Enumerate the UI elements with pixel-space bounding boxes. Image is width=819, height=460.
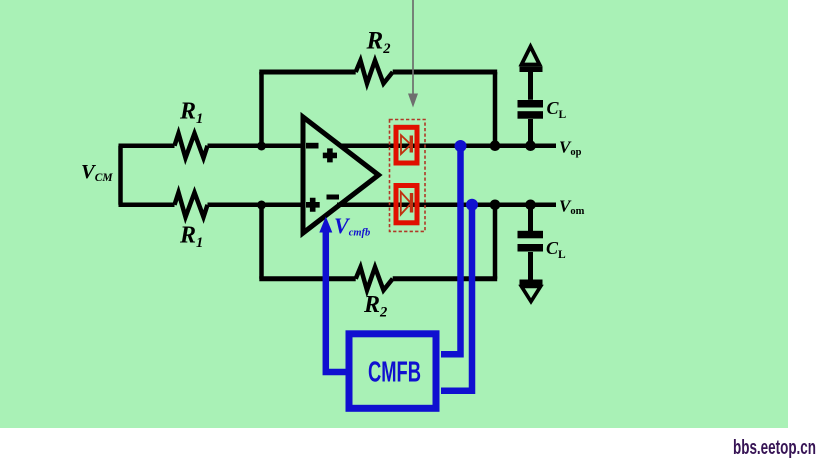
- label CL (bottom): [546, 238, 566, 261]
- node: blue dot on vop: [455, 140, 467, 152]
- node: blue dot on vom: [466, 199, 478, 211]
- label R2 (top): [366, 28, 391, 58]
- capacitor CL (top) plates: [518, 100, 544, 119]
- wire: top output line: [341, 143, 556, 148]
- CMFB output wire and Vcmfb arrow: [319, 217, 346, 373]
- wire: left input vertical: [118, 146, 123, 205]
- wire: bottom input line left segment: [119, 203, 175, 208]
- wire: bottom feedback left vertical: [259, 205, 264, 279]
- label R2 (bottom): [363, 292, 387, 321]
- node: junction dot vom / CL: [525, 200, 536, 211]
- wire: top feedback left vertical: [259, 72, 264, 146]
- label vop: [559, 138, 582, 159]
- wire: top input line left segment: [119, 143, 175, 148]
- annotation arrow (gray, pointing at buffers): [408, 0, 418, 108]
- resistor R2 (bottom): [356, 267, 393, 290]
- resistor R1 (top): [175, 133, 208, 158]
- node: junction dot vom / feedback: [490, 200, 501, 211]
- label CMFB: [368, 357, 421, 389]
- CMFB wire A (from vop node): [441, 146, 461, 354]
- svg-text:bbs.eetop.cn: bbs.eetop.cn: [733, 437, 816, 459]
- label R1 (bottom): [179, 223, 203, 252]
- wire: bottom feedback horizontal left of R2: [259, 276, 355, 281]
- resistor R1 (bottom): [175, 193, 208, 218]
- supply arrow up (top): [520, 47, 543, 73]
- capacitor CL (top) wire stubs: [528, 71, 533, 146]
- node: junction dot bottom input / feedback: [257, 201, 266, 210]
- op-amp minus sign (top input): [306, 143, 319, 149]
- dashed highlight box around buffers: [390, 120, 426, 232]
- capacitor CL (bottom) wire stubs: [528, 205, 533, 280]
- buffer A2 red box (bottom output): [396, 186, 417, 223]
- wire: top input line right segment: [208, 143, 304, 148]
- buffer A1 red box (top output): [396, 127, 417, 163]
- watermark bbs.eetop.cn: [733, 437, 816, 459]
- node: junction dot vop / CL: [525, 140, 536, 151]
- node: junction dot vop / feedback: [490, 140, 501, 151]
- label CL (top): [547, 98, 567, 121]
- wire: top feedback horizontal left of R2: [259, 70, 355, 75]
- op-amp minus sign (bottom, inner): [327, 195, 340, 200]
- node: junction dot top input / feedback: [257, 142, 266, 151]
- supply arrow down (bottom): [520, 280, 543, 302]
- capacitor CL (bottom) plates: [518, 231, 544, 252]
- wire: top feedback right vertical: [493, 72, 498, 146]
- op-amp U1 triangle: [303, 117, 379, 233]
- wire: bottom feedback horizontal right of R2: [393, 276, 498, 281]
- label Vcmfb: [334, 213, 370, 239]
- label VCM: [81, 161, 113, 184]
- CMFB wire B (from vom node): [441, 205, 472, 391]
- op-amp plus sign (bottom input): [306, 198, 320, 212]
- svg-text:CMFB: CMFB: [368, 357, 421, 389]
- wire: bottom output line: [337, 203, 556, 208]
- wire: top feedback horizontal right of R2: [393, 70, 498, 75]
- label vom: [559, 197, 585, 218]
- resistor R2 (top): [356, 61, 393, 84]
- label R1 (top): [179, 99, 203, 128]
- wire: bottom feedback right vertical: [493, 205, 498, 279]
- op-amp plus sign (top, inner): [323, 148, 337, 162]
- wire: bottom input line right segment: [208, 203, 304, 208]
- CMFB block: [349, 334, 436, 409]
